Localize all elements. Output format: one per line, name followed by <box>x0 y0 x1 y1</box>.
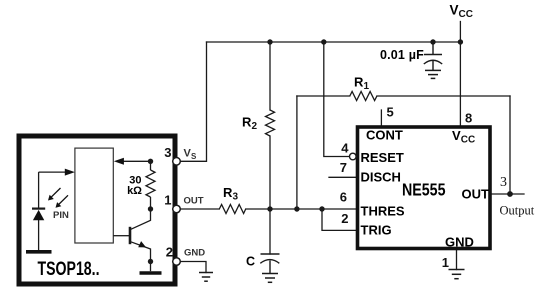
svg-text:GND: GND <box>184 248 205 259</box>
ground (TSOP GND pin) <box>199 273 213 282</box>
light arrows <box>50 188 68 206</box>
top supply wire <box>207 41 461 43</box>
wire: RESET pin 4 to top wire <box>324 42 350 157</box>
wire: main row OUT pin to R3 <box>180 208 219 210</box>
wire: TSOP GND pin to ground <box>180 262 206 273</box>
svg-text:CC: CC <box>461 135 475 146</box>
svg-text:V: V <box>450 3 459 18</box>
svg-text:0.01 µF: 0.01 µF <box>380 48 424 62</box>
ground (NE555 pin 1) <box>449 270 465 279</box>
wire: R1 left vertical to THRES node <box>296 96 298 209</box>
photodiode PIN <box>32 172 45 250</box>
internal ground bar (emitter) <box>150 262 152 272</box>
wire: R1 right vertical to OUT node <box>509 96 511 194</box>
wire: R3 to THRES pin 6 <box>246 208 357 210</box>
wire with arrow from photodiode into IC block <box>39 171 66 173</box>
svg-text:DISCH: DISCH <box>361 170 401 185</box>
TSOP pin 2 GND <box>173 258 181 266</box>
svg-text:2: 2 <box>166 245 173 260</box>
svg-text:V: V <box>452 128 461 143</box>
svg-text:6: 6 <box>340 190 347 205</box>
wire: TRIG pin 2 branch <box>322 209 357 230</box>
wire: C branch below node <box>269 209 271 254</box>
wire: vertical from top wire down to TSOP VS pin <box>180 42 207 161</box>
svg-text:2: 2 <box>341 211 348 226</box>
svg-text:Output: Output <box>500 204 535 218</box>
TSOP pin 3 VS <box>173 158 181 166</box>
svg-text:3: 3 <box>164 145 171 160</box>
svg-text:RESET: RESET <box>361 150 404 165</box>
resistor R1 <box>350 92 377 101</box>
svg-text:kΩ: kΩ <box>127 185 142 197</box>
svg-text:PIN: PIN <box>53 210 69 221</box>
svg-text:4: 4 <box>341 141 349 156</box>
svg-text:TRIG: TRIG <box>361 223 392 238</box>
svg-text:8: 8 <box>465 111 472 126</box>
svg-text:R: R <box>223 185 233 200</box>
svg-text:7: 7 <box>340 160 347 175</box>
svg-text:3: 3 <box>233 192 239 203</box>
reset pin circle <box>350 153 357 160</box>
resistor 30 kOhm <box>146 161 155 209</box>
wire: VS node to 30k and arrow into IC <box>123 160 151 162</box>
wire: Vcc vertical to NE555 pin 8 <box>459 22 461 127</box>
svg-text:R: R <box>354 75 364 90</box>
wire: R1 top horizontal <box>297 95 350 97</box>
pin 1 wire NE555 GND <box>456 250 458 270</box>
svg-text:THRES: THRES <box>361 204 405 219</box>
svg-text:TSOP18..: TSOP18.. <box>38 259 100 280</box>
svg-text:CC: CC <box>459 9 473 20</box>
pin 5 stub CONT <box>380 110 382 127</box>
svg-text:R: R <box>242 115 252 130</box>
capacitor C <box>260 254 279 274</box>
svg-text:GND: GND <box>445 235 474 250</box>
resistor R2 <box>266 110 275 136</box>
svg-text:C: C <box>246 255 255 269</box>
svg-text:2: 2 <box>252 121 258 132</box>
wire: R2 branch top (top wire to R2) <box>269 42 271 110</box>
svg-text:S: S <box>191 152 197 161</box>
transistor (output stage) <box>113 209 150 262</box>
internal ground bar (photodiode) <box>26 250 52 254</box>
svg-text:1: 1 <box>442 255 449 270</box>
svg-text:3: 3 <box>500 175 507 190</box>
svg-text:OUT: OUT <box>184 195 204 206</box>
svg-text:1: 1 <box>164 193 171 208</box>
svg-text:CONT: CONT <box>366 128 403 143</box>
wire: NE555 OUT pin 3 <box>491 193 525 195</box>
TSOP pin 1 OUT <box>173 205 181 213</box>
svg-text:OUT: OUT <box>462 187 490 202</box>
svg-text:NE555: NE555 <box>402 180 446 200</box>
ground (0.01uF) <box>425 70 441 78</box>
wire: R2 bottom to THRES node <box>269 136 271 209</box>
TSOP inner IC block <box>75 148 113 243</box>
internal node dots <box>148 159 153 265</box>
TSOP18 module box <box>19 136 175 284</box>
NE555 U1 box <box>358 127 491 249</box>
svg-text:1: 1 <box>364 81 370 92</box>
ground (C) <box>262 274 278 283</box>
capacitor 0.01uF <box>424 42 442 70</box>
resistor R3 <box>219 205 245 214</box>
svg-text:5: 5 <box>387 105 394 120</box>
pin 7 stub DISCH <box>329 176 356 178</box>
